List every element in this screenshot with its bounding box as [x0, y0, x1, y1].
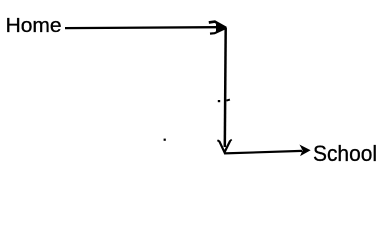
wire vertical corner-to-bottom	[224, 28, 227, 148]
arrowhead down at bottom of vertical wire	[217, 140, 231, 153]
wire home-to-corner (horizontal)	[65, 26, 217, 29]
svg-text:Home: Home	[6, 14, 62, 37]
wire bottom-to-school (horizontal, slight tilt)	[225, 151, 303, 154]
svg-text:School: School	[313, 141, 377, 166]
arrowhead right at top corner	[209, 22, 226, 34]
speck left of vertical wire	[218, 100, 220, 102]
node School label	[313, 141, 377, 166]
speck right of vertical wire	[227, 100, 230, 101]
stray scan speck	[164, 139, 166, 141]
node Home label	[6, 14, 62, 37]
arrowhead right before School	[300, 146, 309, 156]
